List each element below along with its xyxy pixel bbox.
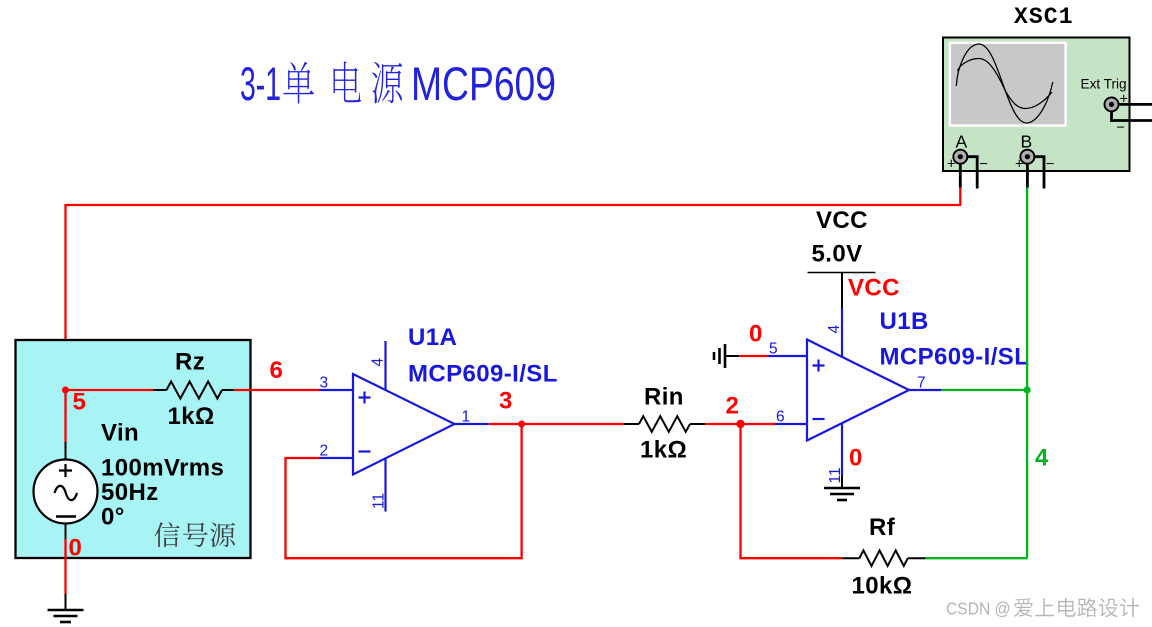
wire U1A out to Rin (red)	[489, 423, 624, 425]
svg-text:1kΩ: 1kΩ	[640, 437, 687, 464]
wire Rz to U1A pin3 (red)	[234, 389, 320, 391]
ground (U1B pin5, rotated)	[714, 344, 739, 368]
svg-text:3: 3	[499, 388, 513, 415]
watermark CSDN	[946, 598, 1139, 619]
A plus pin stub	[959, 163, 962, 187]
svg-text:+: +	[1015, 157, 1023, 173]
信号源 caption	[154, 522, 235, 547]
svg-text:−: −	[1117, 120, 1125, 136]
wire node2 down to Rf (red)	[741, 424, 843, 558]
svg-text:6: 6	[270, 357, 284, 384]
B terminal	[1020, 150, 1034, 164]
svg-text:2: 2	[320, 443, 329, 460]
svg-text:Vin: Vin	[101, 420, 139, 447]
wire junction to Rz (red)	[66, 389, 154, 391]
svg-text:1kΩ: 1kΩ	[168, 403, 215, 430]
svg-text:Rin: Rin	[644, 384, 684, 411]
svg-text:0: 0	[749, 321, 763, 348]
svg-text:0°: 0°	[101, 504, 125, 531]
op-amp U1B	[768, 308, 941, 476]
svg-text:50Hz: 50Hz	[101, 479, 159, 506]
svg-text:4: 4	[1035, 445, 1049, 472]
scope trace B	[958, 59, 1053, 109]
svg-text:MCP609-I/SL: MCP609-I/SL	[880, 344, 1030, 371]
node 3 junction	[518, 421, 525, 428]
svg-text:5: 5	[769, 341, 778, 358]
svg-text:Rf: Rf	[869, 514, 896, 541]
svg-text:0: 0	[69, 535, 83, 562]
svg-text:0: 0	[849, 445, 863, 472]
feedback wire U1A (red)	[286, 424, 522, 558]
B minus stub wire	[1034, 157, 1044, 189]
svg-text:4: 4	[826, 325, 843, 334]
wire Rin to node2 (red)	[705, 423, 775, 425]
title 3-1单电源MCP609	[240, 57, 556, 110]
scope trace A	[956, 44, 1053, 123]
svg-text:5: 5	[73, 389, 87, 416]
svg-text:Ext Trig: Ext Trig	[1081, 77, 1127, 92]
resistor Rin	[624, 416, 705, 432]
svg-text:CSDN @: CSDN @	[946, 599, 1011, 619]
svg-text:11: 11	[371, 493, 388, 509]
node 5 junction	[62, 387, 69, 394]
wire Rf to node4 (green)	[926, 557, 1028, 559]
svg-text:3-1: 3-1	[240, 57, 281, 110]
svg-text:10kΩ: 10kΩ	[852, 573, 913, 600]
AC source Vin symbol	[34, 460, 98, 524]
VCC power bar	[808, 272, 876, 274]
ground (U1B pin11)	[824, 488, 860, 500]
signal source box	[16, 340, 251, 558]
wire node5 down to Vin (red then black)	[64, 390, 66, 442]
svg-text:MCP609-I/SL: MCP609-I/SL	[408, 361, 558, 388]
svg-text:−: −	[980, 157, 988, 173]
wire pin11 to ground (black)	[841, 476, 843, 488]
wire VCC bar to pin4 (black)	[841, 273, 843, 309]
wire ground to U1B pin5 (red)	[739, 355, 768, 357]
resistor Rz	[153, 382, 234, 399]
svg-text:B: B	[1021, 132, 1033, 152]
oscilloscope screen	[950, 43, 1066, 126]
svg-text:MCP609: MCP609	[411, 57, 556, 110]
A minus stub wire	[967, 157, 977, 189]
svg-text:A: A	[956, 132, 968, 152]
svg-text:1: 1	[462, 409, 471, 426]
svg-text:4: 4	[370, 358, 387, 367]
svg-text:U1A: U1A	[408, 324, 457, 351]
svg-text:VCC: VCC	[848, 275, 900, 302]
svg-text:3: 3	[320, 375, 329, 392]
svg-text:100mVrms: 100mVrms	[101, 455, 224, 482]
svg-text:6: 6	[776, 409, 785, 426]
wire node4 vertical (green)	[1026, 188, 1028, 559]
ground (source)	[48, 594, 84, 622]
svg-text:U1B: U1B	[880, 308, 929, 335]
wire Vin to ground (black then red)	[65, 524, 67, 540]
svg-text:XSC1: XSC1	[1014, 4, 1074, 30]
resistor Rf	[842, 550, 925, 566]
svg-text:7: 7	[917, 375, 926, 392]
svg-text:VCC: VCC	[816, 207, 868, 234]
svg-text:+: +	[947, 157, 955, 173]
oscilloscope XSC1 body	[943, 38, 1130, 173]
wire U1B out to node4 (green)	[941, 389, 1027, 391]
Ext Trig wires	[1112, 104, 1152, 120]
op-amp U1A	[319, 341, 489, 512]
svg-text:5.0V: 5.0V	[812, 241, 863, 268]
node 2 junction	[736, 420, 744, 428]
A terminal	[953, 150, 967, 164]
svg-text:Rz: Rz	[175, 349, 205, 376]
Ext Trig terminal	[1105, 97, 1119, 111]
svg-text:2: 2	[726, 393, 740, 420]
B plus pin stub	[1026, 163, 1029, 187]
wire net5 scope-A to source (red)	[66, 188, 961, 389]
node 4 junction	[1024, 386, 1031, 393]
svg-text:−: −	[1046, 157, 1054, 173]
